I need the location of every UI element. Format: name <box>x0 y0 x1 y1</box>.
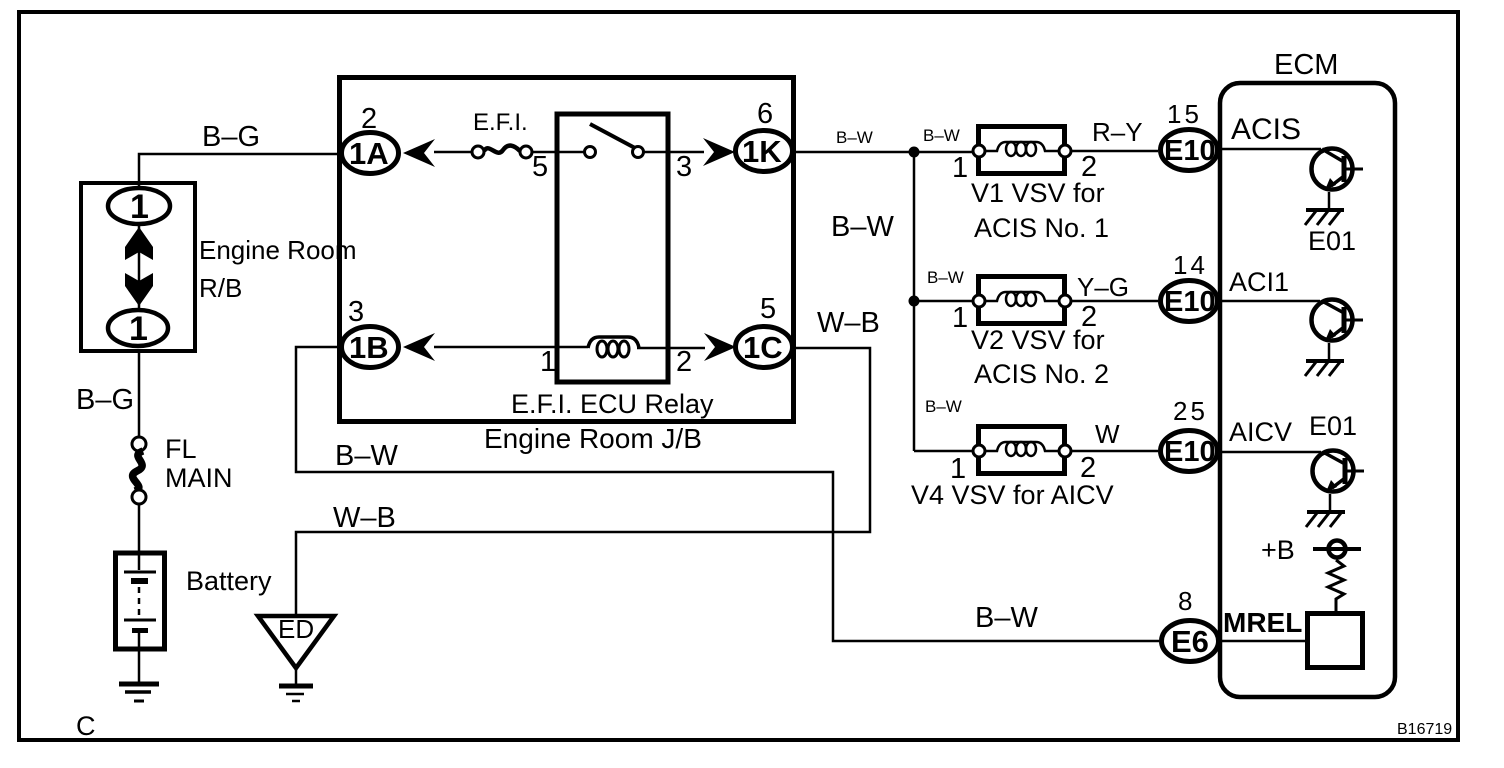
svg-text:AICV: AICV <box>1229 417 1292 447</box>
battery <box>116 551 165 651</box>
label B-W (large, bus) <box>831 211 894 243</box>
label B-W (small, V2) <box>927 268 964 287</box>
Engine Room R/B box <box>81 183 195 351</box>
ground ED triangle <box>258 614 334 701</box>
wire B-G from R/B down to FL MAIN <box>138 349 141 437</box>
svg-text:ED: ED <box>278 614 314 644</box>
label V1 VSV for ACIS No. 1 <box>971 178 1109 243</box>
wire FL MAIN to battery <box>138 504 141 551</box>
junction node (row 2) <box>909 296 920 307</box>
label B-W (small, right of junction) <box>923 126 960 145</box>
transistor Q2 <box>1312 300 1364 342</box>
wire E6 to MREL box <box>1221 640 1305 643</box>
label B-W (small, V4) <box>925 397 962 416</box>
label Engine Room R/B <box>199 235 357 303</box>
svg-text:B–W: B–W <box>975 602 1038 634</box>
svg-text:E10: E10 <box>1164 286 1216 318</box>
VSV V2 coil <box>952 277 1097 335</box>
svg-text:B–W: B–W <box>923 126 960 145</box>
arrow into 1A <box>403 139 435 167</box>
connector 1A pin 2 <box>342 103 399 174</box>
svg-text:B–W: B–W <box>836 128 873 147</box>
fuse E.F.I. pin 5 <box>472 109 548 183</box>
svg-text:1: 1 <box>129 310 148 348</box>
svg-text:W–B: W–B <box>817 307 880 339</box>
arrow into 1B <box>403 333 435 361</box>
wire Q3 emitter to ground <box>1329 494 1332 511</box>
junction node (row 1) <box>909 147 920 158</box>
svg-text:R–Y: R–Y <box>1092 117 1143 147</box>
svg-text:ACI1: ACI1 <box>1229 267 1289 297</box>
ground (battery) <box>119 684 159 701</box>
pass-through arrow up (R/B) <box>125 226 153 308</box>
svg-text:E10: E10 <box>1164 436 1216 468</box>
wire 1A to E.F.I. fuse <box>434 151 472 154</box>
svg-text:FL: FL <box>165 434 197 464</box>
svg-text:B–W: B–W <box>831 211 894 243</box>
connector 1 (top of R/B) <box>108 188 170 226</box>
svg-text:3: 3 <box>348 296 364 328</box>
transistor Q3 <box>1313 451 1365 493</box>
svg-text:C: C <box>76 711 96 741</box>
svg-text:1A: 1A <box>349 136 389 171</box>
terminal +B <box>1313 541 1361 558</box>
svg-text:MAIN: MAIN <box>165 463 233 493</box>
label C <box>76 711 96 741</box>
svg-text:1K: 1K <box>742 134 782 169</box>
label W-B (mid left) <box>333 502 396 534</box>
wire AICV to transistor Q3 <box>1222 451 1321 454</box>
wire B-W from 1K to VSV bus <box>795 151 973 154</box>
label B-G (left) <box>76 384 134 416</box>
svg-text:E.F.I. ECU Relay: E.F.I. ECU Relay <box>511 389 714 419</box>
wire fuse to relay <box>532 151 584 154</box>
svg-text:ECM: ECM <box>1274 49 1338 81</box>
label B-W (bottom, near E6) <box>975 602 1038 634</box>
label V2 VSV for ACIS No. 2 <box>971 325 1109 389</box>
ECM box <box>1220 83 1395 697</box>
VSV V4 coil <box>950 427 1096 486</box>
svg-text:E10: E10 <box>1164 135 1216 167</box>
wire switch to 1K <box>644 151 704 154</box>
vertical B-W bus wire <box>913 152 916 451</box>
label W <box>1095 419 1120 449</box>
arrow into 1K <box>703 138 735 166</box>
wire B-W from 1B to E6 <box>296 347 1159 641</box>
svg-text:Engine Room J/B: Engine Room J/B <box>484 423 702 454</box>
ground (Q3) <box>1306 512 1345 527</box>
label ACI1 <box>1229 267 1289 297</box>
label B-W (under J/B) <box>335 440 398 472</box>
relay box E.F.I. ECU Relay <box>511 114 714 419</box>
svg-text:ACIS: ACIS <box>1231 113 1301 146</box>
wire Q2 emitter to ground <box>1328 343 1331 360</box>
wire bus to V4 <box>914 450 973 453</box>
label R-Y <box>1092 117 1143 147</box>
connector E10 pin 15 <box>1161 99 1218 171</box>
svg-text:W: W <box>1095 419 1120 449</box>
Engine Room J/B box <box>340 78 794 422</box>
label Engine Room J/B <box>484 423 702 454</box>
svg-text:1: 1 <box>540 346 556 378</box>
svg-text:15: 15 <box>1167 99 1202 129</box>
svg-text:E01: E01 <box>1308 226 1356 256</box>
connector 1 (bottom of R/B) <box>108 310 168 348</box>
VSV V1 coil <box>952 127 1097 185</box>
ground E01 (Q1) <box>1305 210 1344 225</box>
wire ACIS to transistor Q1 <box>1222 148 1321 151</box>
svg-text:2: 2 <box>361 103 377 135</box>
svg-text:W–B: W–B <box>333 502 396 534</box>
label FL MAIN <box>165 434 233 493</box>
label Battery <box>186 566 272 596</box>
svg-text:+B: +B <box>1261 535 1295 565</box>
svg-text:Battery: Battery <box>186 566 272 596</box>
resistor R1 <box>1328 560 1344 611</box>
connector 1C pin 5 <box>736 293 793 368</box>
wire R-Y V1 to E10 <box>1071 150 1158 153</box>
wire ACI1 to transistor Q2 <box>1222 300 1320 303</box>
svg-text:E.F.I.: E.F.I. <box>473 109 528 136</box>
svg-text:25: 25 <box>1173 396 1208 426</box>
label W-B (large, near 1C) <box>817 307 880 339</box>
svg-text:R/B: R/B <box>199 273 242 303</box>
wire B-G from Engine Room R/B to 1A <box>139 154 341 186</box>
svg-text:1: 1 <box>952 152 968 184</box>
label B16719 <box>1397 721 1452 738</box>
svg-text:B–G: B–G <box>76 384 134 416</box>
MREL driver box <box>1308 614 1363 668</box>
svg-text:1: 1 <box>130 188 149 226</box>
svg-text:14: 14 <box>1173 250 1208 280</box>
svg-text:V4 VSV for AICV: V4 VSV for AICV <box>911 480 1114 510</box>
svg-text:V1 VSV for: V1 VSV for <box>971 178 1105 208</box>
connector 1B pin 3 <box>342 296 399 368</box>
svg-text:1C: 1C <box>743 330 783 365</box>
relay pin 3 label <box>676 151 692 183</box>
svg-text:ACIS No. 1: ACIS No. 1 <box>974 213 1109 243</box>
svg-text:E6: E6 <box>1171 624 1209 659</box>
label ECM <box>1274 49 1338 81</box>
connector E10 pin 25 <box>1161 396 1218 472</box>
label E01 (Q1) <box>1308 226 1356 256</box>
svg-text:3: 3 <box>676 151 692 183</box>
ground (Q2) <box>1305 361 1344 376</box>
label V4 VSV for AICV <box>911 480 1114 510</box>
label MREL <box>1223 607 1302 638</box>
pass-through arrow down (R/B) <box>125 273 153 306</box>
arrow into 1C <box>704 333 736 361</box>
svg-text:2: 2 <box>676 346 692 378</box>
svg-text:MREL: MREL <box>1223 607 1302 638</box>
label E01 (Q3) <box>1309 411 1357 441</box>
wire Y-G V2 to E10 <box>1071 300 1158 303</box>
svg-text:Y–G: Y–G <box>1077 272 1129 302</box>
svg-text:B–W: B–W <box>335 440 398 472</box>
wire 1B arrow to relay coil <box>434 346 588 349</box>
wire battery to ground <box>138 651 141 682</box>
svg-text:B–G: B–G <box>202 121 260 153</box>
connector E6 pin 8 <box>1162 586 1219 662</box>
label B-W (small, left of junction) <box>836 128 873 147</box>
label B-G (top) <box>202 121 260 153</box>
svg-text:5: 5 <box>532 151 548 183</box>
svg-text:ACIS No. 2: ACIS No. 2 <box>974 359 1109 389</box>
svg-text:1: 1 <box>952 302 968 334</box>
svg-text:1B: 1B <box>349 330 389 365</box>
svg-text:5: 5 <box>760 293 776 325</box>
svg-text:6: 6 <box>757 98 773 130</box>
svg-text:8: 8 <box>1178 586 1195 616</box>
fusible link FL MAIN <box>132 437 146 504</box>
transistor Q1 <box>1312 149 1364 191</box>
connector E10 pin 14 <box>1161 250 1218 322</box>
wire W V4 to E10 <box>1071 450 1158 453</box>
label ACIS <box>1231 113 1301 146</box>
wire Q1 emitter to ground <box>1328 192 1331 209</box>
svg-text:E01: E01 <box>1309 411 1357 441</box>
wire bus to V2 <box>914 300 973 303</box>
svg-text:V2 VSV for: V2 VSV for <box>971 325 1105 355</box>
svg-text:B–W: B–W <box>925 397 962 416</box>
relay coil pins 1-2 <box>540 337 692 378</box>
wire relay coil to 1C <box>637 347 705 350</box>
svg-text:Engine Room: Engine Room <box>199 235 357 265</box>
label Y-G <box>1077 272 1129 302</box>
label +B <box>1261 535 1295 565</box>
svg-text:B–W: B–W <box>927 268 964 287</box>
wire W-B from 1C to ED <box>296 348 870 614</box>
svg-text:B16719: B16719 <box>1397 721 1452 738</box>
relay switch contacts pins 5-3 <box>585 124 644 158</box>
connector 1K pin 6 <box>736 98 793 172</box>
label AICV <box>1229 417 1292 447</box>
